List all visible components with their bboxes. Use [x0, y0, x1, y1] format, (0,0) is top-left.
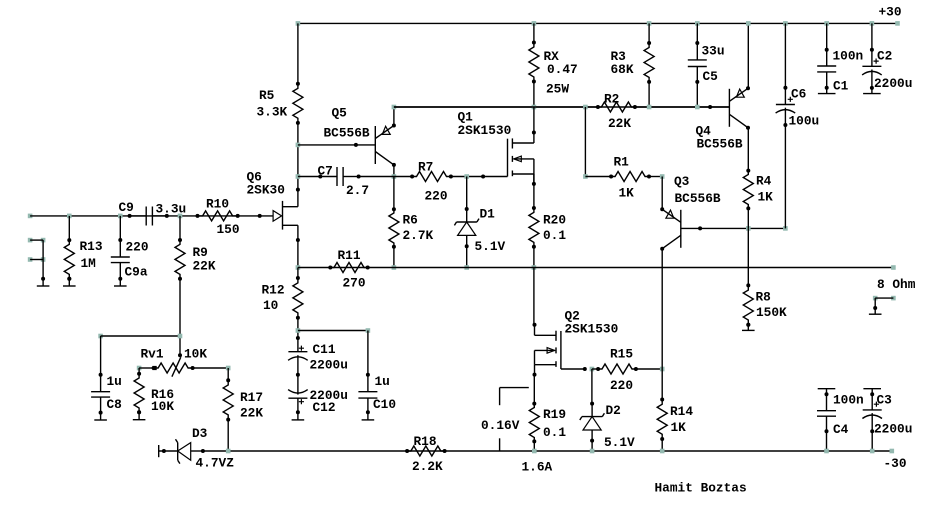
- node D2 bottom: [590, 449, 595, 454]
- transistor Q3: [660, 207, 681, 250]
- label C4: [833, 393, 864, 438]
- resistor R3: [644, 41, 654, 84]
- wire: [533, 82, 535, 108]
- svg-text:5.1V: 5.1V: [604, 435, 635, 450]
- label C1: [833, 49, 864, 94]
- wire: [875, 297, 893, 299]
- wire Q3 collector down: [661, 249, 663, 369]
- svg-text:2SK1530: 2SK1530: [458, 123, 512, 138]
- label C10: [373, 374, 396, 412]
- wire: [783, 23, 787, 104]
- wire: [591, 369, 593, 404]
- svg-text:R18: R18: [414, 434, 437, 449]
- wire: [466, 177, 468, 210]
- capacitor C10: [358, 331, 377, 413]
- wire: [592, 368, 662, 370]
- node input/R13 junction: [67, 214, 72, 219]
- label R5: [257, 88, 288, 119]
- wire: [648, 82, 650, 107]
- wire: [585, 176, 662, 178]
- label Q2: [565, 309, 619, 337]
- node R6 bottom junction: [392, 265, 397, 270]
- wire: [138, 368, 140, 374]
- wire: [825, 416, 829, 451]
- node Rv1 right junction: [226, 366, 231, 371]
- svg-text:D2: D2: [606, 403, 621, 418]
- node R5 top: [296, 21, 301, 26]
- label C6: [789, 86, 820, 128]
- resistor R8: [743, 283, 753, 326]
- node Q2 gate junction: [590, 367, 595, 372]
- svg-text:R19: R19: [543, 407, 566, 422]
- node 0.16V bracket: [500, 388, 529, 451]
- svg-text:10K: 10K: [151, 399, 174, 414]
- label D3: [192, 426, 234, 470]
- label C8: [107, 374, 122, 412]
- wire Q2 drain from bus: [533, 268, 535, 325]
- wire: [227, 420, 229, 451]
- svg-text:R15: R15: [610, 347, 633, 362]
- wire Q4 emitter up: [747, 23, 749, 87]
- resistor R16: [134, 372, 144, 415]
- node R4 bottom junction: [746, 226, 751, 231]
- svg-text:100n: 100n: [833, 49, 864, 64]
- capacitor C4: [817, 411, 836, 417]
- label signature: [655, 481, 747, 496]
- node feedback corner: [98, 334, 103, 339]
- wire Q5 base: [298, 143, 375, 147]
- capacitor C5: [688, 60, 707, 67]
- svg-text:0.1: 0.1: [543, 425, 566, 440]
- svg-text:1.6A: 1.6A: [522, 460, 553, 475]
- label Rv1: [141, 347, 208, 362]
- label 0.16V: [481, 418, 520, 433]
- wire R12/C10 row: [298, 330, 368, 332]
- svg-text:R6: R6: [403, 213, 418, 228]
- svg-text:BC556B: BC556B: [324, 126, 370, 141]
- node RX top: [532, 21, 537, 26]
- node R12 top junction: [296, 265, 301, 270]
- wire: [297, 240, 299, 268]
- resistor R18: [405, 446, 447, 456]
- svg-text:2200u: 2200u: [874, 76, 912, 91]
- wire Q5 emitter up: [393, 107, 395, 126]
- capacitor C9a: [111, 257, 130, 263]
- ground C9a: [114, 277, 127, 286]
- node R15 right junction: [660, 367, 665, 372]
- capacitor C8: [91, 392, 110, 413]
- wire C7-R7 row: [359, 175, 508, 179]
- svg-text:C5: C5: [703, 69, 719, 84]
- transistor Q1: [508, 131, 536, 186]
- svg-text:Q5: Q5: [332, 106, 348, 121]
- node Q5 base junction: [296, 143, 301, 148]
- svg-text:0.1: 0.1: [543, 228, 566, 243]
- wire: [870, 70, 874, 94]
- svg-text:R5: R5: [259, 88, 275, 103]
- transistor Q6: [258, 188, 300, 242]
- node output junction: [532, 265, 537, 270]
- wire: [466, 246, 468, 267]
- wire -30 rail: [203, 450, 892, 452]
- svg-text:C4: C4: [833, 422, 849, 437]
- wire: [661, 369, 663, 400]
- wire Q1 source to R20: [533, 174, 535, 208]
- svg-text:R10: R10: [206, 197, 229, 212]
- svg-text:2.7K: 2.7K: [403, 228, 434, 243]
- svg-text:R7: R7: [418, 159, 433, 174]
- label D1: [475, 206, 506, 254]
- label R7: [418, 159, 448, 203]
- node C1 top: [824, 21, 829, 26]
- resistor R11: [328, 263, 369, 273]
- svg-text:D3: D3: [192, 426, 208, 441]
- node R19 bottom: [532, 449, 537, 454]
- svg-text:C6: C6: [791, 86, 806, 101]
- wire R2 row: [394, 106, 598, 108]
- wire: [635, 106, 730, 108]
- potentiometer Rv1: [152, 353, 195, 377]
- resistor R5: [293, 82, 303, 125]
- label R6: [403, 213, 434, 244]
- svg-text:0.16V: 0.16V: [481, 418, 520, 433]
- svg-text:C1: C1: [833, 79, 849, 94]
- label R14: [670, 404, 693, 435]
- resistor R6: [389, 207, 399, 249]
- capacitor C3: [862, 402, 882, 419]
- label C9: [119, 200, 187, 217]
- svg-text:2SK30: 2SK30: [247, 183, 285, 198]
- label R10: [206, 197, 240, 238]
- wire input: [30, 215, 273, 217]
- svg-text:2200u: 2200u: [310, 358, 348, 373]
- label Q6: [247, 170, 285, 198]
- ground C12: [292, 410, 305, 420]
- terminal C2: [863, 93, 881, 95]
- label R11: [338, 248, 366, 291]
- svg-text:R4: R4: [756, 174, 772, 189]
- node C7 junction: [296, 174, 301, 179]
- node Q4 emitter top: [746, 21, 751, 26]
- node R17/D3 junction: [226, 449, 231, 454]
- svg-text:25W: 25W: [546, 82, 569, 97]
- capacitor C7: [298, 167, 361, 186]
- wire: [783, 108, 787, 229]
- wire: [227, 368, 229, 380]
- label R12: [262, 283, 285, 314]
- wire: [118, 216, 122, 257]
- svg-text:Rv1: Rv1: [141, 347, 164, 362]
- svg-text:22K: 22K: [240, 406, 263, 421]
- svg-text:D1: D1: [480, 206, 496, 221]
- label C5: [702, 44, 725, 85]
- ground C8: [94, 411, 107, 420]
- label D2: [604, 403, 635, 450]
- svg-text:C9a: C9a: [125, 265, 148, 280]
- node C2 top: [870, 21, 875, 26]
- node R1 row corner: [583, 174, 588, 179]
- label C2: [874, 49, 912, 92]
- node R12 bottom junction: [296, 328, 301, 333]
- label R20: [543, 213, 566, 244]
- node C9/R9 junction: [178, 214, 183, 219]
- resistor R12: [293, 276, 303, 320]
- wire Q2 gate lead: [561, 367, 587, 371]
- svg-text:1K: 1K: [671, 420, 687, 435]
- wire: [825, 72, 829, 94]
- label R17: [240, 390, 263, 421]
- node RX bottom junction: [532, 105, 537, 110]
- resistor R9: [175, 238, 185, 281]
- label Q5: [324, 106, 370, 141]
- label C12: [310, 388, 348, 415]
- wire Q2 source to R19: [533, 376, 535, 404]
- svg-text:BC556B: BC556B: [697, 137, 743, 152]
- resistor R17: [223, 378, 233, 421]
- wire: [393, 177, 395, 268]
- svg-text:C7: C7: [318, 164, 333, 179]
- wire: [695, 67, 699, 108]
- svg-text:R11: R11: [338, 248, 361, 263]
- svg-text:220: 220: [610, 378, 633, 393]
- wire feedback row: [101, 335, 180, 337]
- svg-text:220: 220: [126, 239, 149, 254]
- transistor Q5: [375, 124, 396, 167]
- wire: [874, 298, 876, 308]
- wire: [648, 23, 650, 43]
- label R2: [604, 92, 631, 132]
- svg-text:150: 150: [217, 222, 240, 237]
- node C10 top junction: [366, 328, 371, 333]
- svg-text:220: 220: [425, 189, 448, 204]
- svg-text:C3: C3: [877, 393, 893, 408]
- node R3 top: [647, 21, 652, 26]
- svg-text:22K: 22K: [608, 116, 631, 131]
- node C6 top: [783, 21, 788, 26]
- wire: [591, 441, 593, 451]
- node D1 top junction: [464, 174, 469, 179]
- wire: [870, 413, 874, 451]
- svg-text:150K: 150K: [756, 305, 787, 320]
- node speaker terminals: [873, 296, 896, 301]
- svg-text:1M: 1M: [81, 256, 97, 271]
- node +30 rail end: [895, 21, 900, 26]
- ground R13: [63, 277, 76, 286]
- node R3 bottom: [647, 105, 652, 110]
- label C3: [874, 393, 912, 437]
- svg-text:C8: C8: [107, 397, 122, 412]
- wire: [68, 216, 70, 240]
- diode D3: [159, 439, 205, 463]
- svg-text:R8: R8: [756, 290, 771, 305]
- svg-text:-30: -30: [884, 456, 907, 471]
- label Q1: [458, 110, 512, 138]
- svg-text:8 Ohm: 8 Ohm: [877, 277, 916, 292]
- node input gnd stub A: [28, 238, 46, 243]
- svg-text:R2: R2: [604, 92, 619, 107]
- node C3 bottom: [870, 449, 875, 454]
- capacitor C6: [776, 97, 796, 113]
- node C4 bottom: [824, 449, 829, 454]
- svg-text:0.47: 0.47: [547, 62, 578, 77]
- wire: [139, 367, 228, 369]
- capacitor C1: [817, 66, 836, 72]
- svg-text:Hamit Boztas: Hamit Boztas: [655, 481, 747, 496]
- node speaker + terminal: [891, 265, 896, 270]
- svg-text:+30: +30: [879, 5, 902, 20]
- diode D2: [580, 402, 605, 443]
- wire: [747, 208, 749, 228]
- svg-text:C10: C10: [373, 397, 396, 412]
- resistor R2: [596, 102, 637, 112]
- resistor R1: [609, 172, 651, 182]
- svg-text:2.7: 2.7: [346, 183, 369, 198]
- node R14 bottom: [660, 449, 665, 454]
- wire: [533, 23, 535, 42]
- svg-text:C2: C2: [877, 49, 892, 64]
- transistor Q4: [729, 86, 750, 129]
- node wiper junction: [178, 334, 183, 339]
- label R19: [543, 407, 566, 440]
- wire: [661, 177, 663, 210]
- svg-text:270: 270: [343, 276, 366, 291]
- node C6 bottom junction: [783, 226, 788, 231]
- label R9: [193, 245, 216, 274]
- svg-text:33u: 33u: [702, 44, 725, 59]
- wire Q1 drain: [533, 107, 535, 133]
- svg-text:1K: 1K: [758, 190, 774, 205]
- label R1: [614, 155, 635, 201]
- wire: [99, 336, 103, 392]
- wire: [533, 441, 535, 451]
- resistor RX: [529, 41, 539, 84]
- terminal C1: [818, 93, 836, 95]
- node Q3 emitter junction: [660, 174, 665, 179]
- capacitor C9: [128, 207, 169, 226]
- label R8: [756, 290, 788, 321]
- wire: [825, 23, 829, 66]
- label R15: [610, 347, 633, 394]
- svg-text:2.2K: 2.2K: [412, 459, 443, 474]
- label R13: [80, 239, 103, 271]
- svg-text:10K: 10K: [184, 347, 207, 362]
- node -30 label: [884, 456, 907, 471]
- node C5 top: [695, 21, 700, 26]
- wire: [870, 23, 874, 66]
- transistor Q2: [533, 323, 561, 377]
- ground C10: [362, 410, 375, 420]
- svg-text:R13: R13: [80, 239, 103, 254]
- ground R16: [133, 410, 146, 419]
- node +30 label: [879, 5, 902, 20]
- capacitor C2: [862, 59, 882, 75]
- node Q5 emitter junction: [392, 105, 397, 110]
- svg-text:68K: 68K: [611, 62, 634, 77]
- wire Q5 collector down: [393, 165, 395, 177]
- svg-text:C11: C11: [313, 342, 336, 357]
- svg-text:2SK1530: 2SK1530: [565, 322, 619, 337]
- wire: [747, 228, 749, 285]
- wire input gnd join: [42, 240, 44, 279]
- label C11: [310, 342, 348, 373]
- node R6 top junction: [392, 174, 397, 179]
- node -30 rail end: [890, 449, 895, 454]
- node input terminal: [28, 214, 33, 219]
- wire: [695, 23, 699, 60]
- wire: [119, 263, 121, 279]
- node C9a junction: [118, 214, 123, 219]
- label 8 Ohm: [877, 277, 916, 292]
- ground R8: [742, 323, 755, 331]
- capacitor C12: [288, 375, 308, 413]
- label R3: [611, 49, 634, 77]
- node R2 row junction: [583, 105, 588, 110]
- wire mid rail: [394, 106, 730, 108]
- node Rv1 left junction: [137, 366, 142, 371]
- wire output bus: [298, 267, 894, 269]
- wire Q4 collector down: [747, 128, 749, 171]
- wire +30 rail: [298, 22, 898, 24]
- svg-text:R17: R17: [240, 390, 263, 405]
- resistor R19: [529, 402, 539, 444]
- svg-text:1u: 1u: [107, 374, 122, 389]
- label R4: [756, 174, 773, 205]
- wire: [297, 123, 299, 190]
- wire: [179, 216, 181, 240]
- wire: [584, 107, 586, 177]
- svg-text:5.1V: 5.1V: [475, 239, 506, 254]
- svg-text:R20: R20: [543, 213, 566, 228]
- capacitor C11: [288, 336, 308, 377]
- node input gnd stub B: [28, 257, 46, 262]
- svg-text:100u: 100u: [789, 114, 820, 129]
- terminal C3: [863, 388, 881, 390]
- label Q4: [696, 124, 743, 152]
- resistor R13: [64, 238, 74, 281]
- wire R9 to feedback: [179, 279, 181, 356]
- svg-text:3.3K: 3.3K: [257, 104, 288, 119]
- resistor R4: [743, 169, 753, 211]
- svg-text:BC556B: BC556B: [675, 191, 721, 206]
- resistor R10: [196, 211, 240, 221]
- wire: [870, 389, 874, 410]
- label R18: [412, 434, 443, 474]
- resistor R14: [657, 398, 667, 442]
- svg-text:2200u: 2200u: [874, 422, 912, 437]
- wire: [297, 23, 299, 83]
- label RX: [544, 49, 578, 97]
- resistor R20: [529, 206, 539, 249]
- ground input: [37, 277, 50, 286]
- wire: [825, 389, 829, 411]
- wire: [297, 268, 299, 339]
- wire: [661, 439, 663, 451]
- resistor R15: [596, 364, 638, 374]
- ground speaker: [869, 306, 882, 314]
- terminal C4: [818, 388, 836, 390]
- svg-text:22K: 22K: [193, 259, 216, 274]
- svg-text:100n: 100n: [833, 393, 864, 408]
- svg-text:C12: C12: [313, 400, 336, 415]
- label 1.6A: [522, 460, 553, 475]
- svg-text:1u: 1u: [375, 374, 390, 389]
- svg-text:R1: R1: [614, 155, 630, 170]
- wire: [533, 247, 535, 268]
- svg-text:R14: R14: [670, 404, 693, 419]
- label C7: [318, 164, 370, 199]
- svg-text:C9: C9: [119, 200, 134, 215]
- label R16: [151, 387, 174, 414]
